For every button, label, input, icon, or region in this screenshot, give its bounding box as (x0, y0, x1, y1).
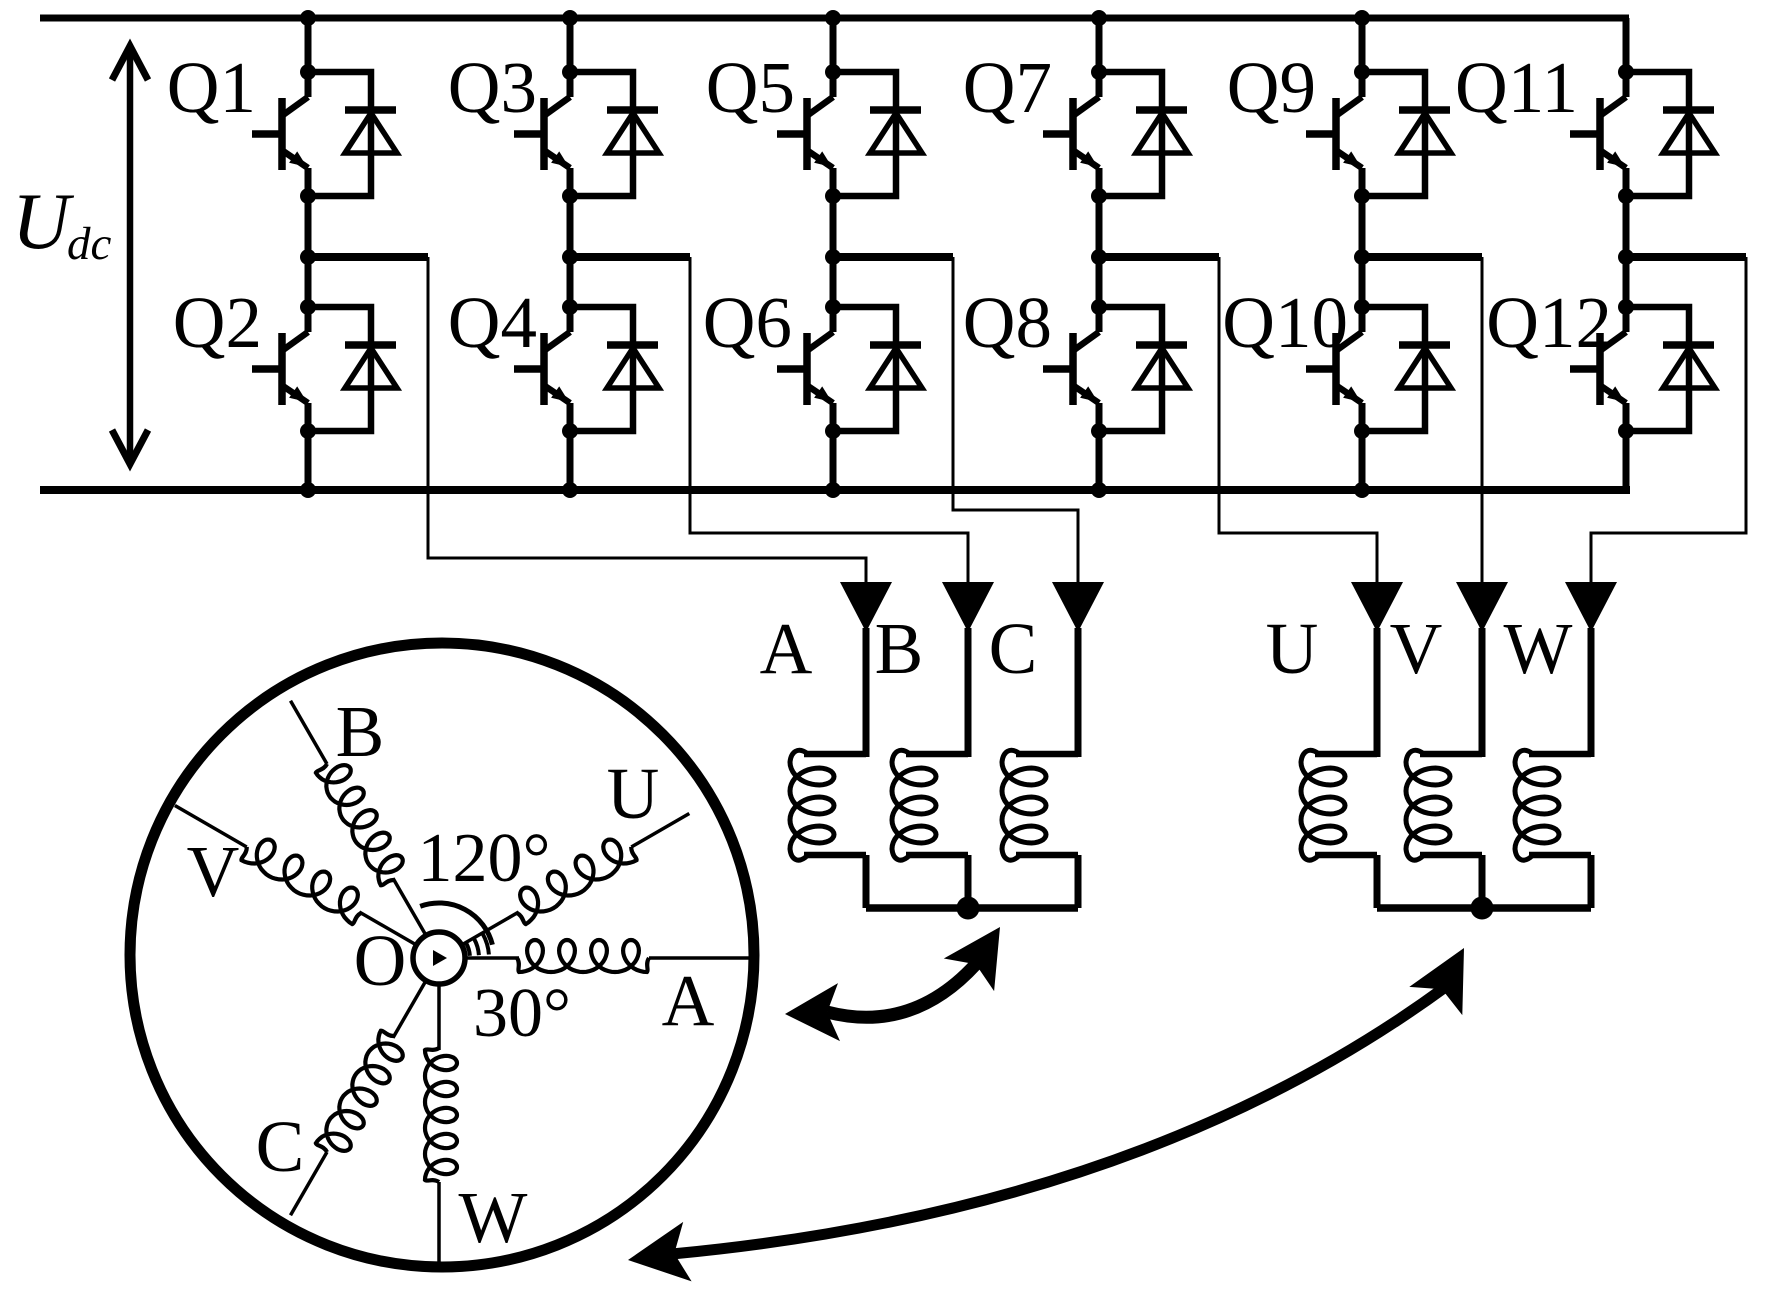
node: Q6 collector junction (825, 299, 841, 315)
node: Q10 emitter junction (1354, 423, 1370, 439)
arrow into phase B terminal (942, 582, 994, 632)
wire: phase C lead into winding (1075, 628, 1082, 757)
node: Q7 emitter junction (1091, 188, 1107, 204)
freewheel diode of Q8 (1099, 307, 1188, 431)
arrow into phase V terminal (1456, 582, 1508, 632)
node: Q9 emitter junction (1354, 188, 1370, 204)
wire: output V routing (1481, 257, 1484, 584)
wire: leg 3 midpoint output stub (833, 253, 953, 261)
svg-text:B: B (336, 691, 385, 772)
node: Q8 collector junction (1091, 299, 1107, 315)
freewheel diode of Q3 (570, 72, 659, 196)
node: Q2 collector junction (300, 299, 316, 315)
wire: inverter leg 4 vertical (1096, 18, 1103, 490)
winding V spoke (175, 806, 417, 946)
wire: leg 5 midpoint output stub (1362, 253, 1482, 261)
wire: V coil bottom to star point bus (1479, 855, 1486, 908)
winding A spoke (464, 940, 750, 972)
Udc dimension arrow (112, 46, 148, 464)
node: Q4 emitter junction (562, 423, 578, 439)
freewheel diode of Q6 (833, 307, 922, 431)
svg-text:O: O (354, 920, 407, 1001)
node: Q3 collector junction (562, 64, 578, 80)
wire: leg 6 midpoint output stub (1626, 253, 1746, 261)
svg-text:30°: 30° (473, 975, 571, 1052)
wire: C coil bottom to star point bus (1075, 855, 1082, 908)
svg-text:V: V (187, 831, 240, 912)
node: Q4 collector junction (562, 299, 578, 315)
node: Q6 emitter junction (825, 423, 841, 439)
node: leg 4 midpoint (1091, 249, 1107, 265)
wire: output B routing (690, 257, 968, 584)
wire: A coil bottom to star point bus (863, 855, 870, 908)
wire: output W routing (1591, 257, 1746, 584)
winding coil LA (790, 750, 866, 860)
node: leg 4 bottom rail junction (1091, 482, 1107, 498)
double arrow: ABC group to stator (short) (827, 964, 976, 1017)
svg-text:C: C (989, 608, 1038, 689)
wire: phase B lead into winding (965, 628, 972, 757)
svg-text:A: A (760, 608, 813, 689)
motor stator circle (130, 643, 754, 1267)
node: Q11 collector junction (1618, 64, 1634, 80)
node: Q5 emitter junction (825, 188, 841, 204)
winding coil LB (892, 750, 968, 860)
node: Q3 emitter junction (562, 188, 578, 204)
transistor Q6 (IGBT) (777, 307, 833, 431)
svg-text:120°: 120° (418, 820, 551, 897)
node: leg 1 midpoint (300, 249, 316, 265)
svg-text:U: U (12, 178, 75, 266)
wire: output C routing (953, 257, 1078, 584)
node: leg 1 top rail junction (300, 10, 316, 26)
wire: negative DC rail (40, 486, 1630, 494)
wire: leg 4 midpoint output stub (1099, 253, 1219, 261)
winding U spoke (461, 814, 690, 946)
node: leg 5 midpoint (1354, 249, 1370, 265)
winding coil LU (1301, 750, 1377, 860)
svg-text:B: B (875, 608, 924, 689)
arc: 30 degree angle ticks (466, 934, 489, 956)
node: Q5 collector junction (825, 64, 841, 80)
node: leg 1 bottom rail junction (300, 482, 316, 498)
arc: 120 degree angle mark (420, 903, 492, 945)
winding coil LC (1002, 750, 1078, 860)
node: Q11 emitter junction (1618, 188, 1634, 204)
transistor Q7 (IGBT) (1043, 72, 1099, 196)
arrow into phase C terminal (1052, 582, 1104, 632)
node O center circle (413, 932, 465, 984)
winding B spoke (291, 701, 427, 937)
svg-text:Q6: Q6 (703, 282, 792, 363)
transistor Q2 (IGBT) (252, 307, 308, 431)
node: Q10 collector junction (1354, 299, 1370, 315)
wire: leg 2 midpoint output stub (570, 253, 690, 261)
freewheel diode of Q10 (1362, 307, 1451, 431)
freewheel diode of Q2 (308, 307, 397, 431)
svg-text:A: A (662, 960, 715, 1041)
node: Q1 collector junction (300, 64, 316, 80)
wire: output U routing (1219, 257, 1377, 584)
freewheel diode of Q12 (1626, 307, 1715, 431)
svg-text:Q8: Q8 (963, 282, 1052, 363)
wire: phase A lead into winding (863, 628, 870, 757)
arrow into phase A terminal (840, 582, 892, 632)
wire: U coil bottom to star point bus (1374, 855, 1381, 908)
freewheel diode of Q5 (833, 72, 922, 196)
wire: output A routing (428, 257, 866, 584)
node: leg 5 bottom rail junction (1354, 482, 1370, 498)
node: leg 3 top rail junction (825, 10, 841, 26)
winding coil LV (1406, 750, 1482, 860)
node: leg 3 midpoint (825, 249, 841, 265)
transistor Q10 (IGBT) (1306, 307, 1362, 431)
node: leg 5 top rail junction (1354, 10, 1370, 26)
node: UVW neutral point (1471, 897, 1494, 920)
winding coil LW (1515, 750, 1591, 860)
wire: W coil bottom to star point bus (1588, 855, 1595, 908)
svg-text:Q5: Q5 (706, 47, 795, 128)
wire: inverter leg 3 vertical (830, 18, 837, 490)
svg-text:U: U (607, 753, 660, 834)
node: leg 4 top rail junction (1091, 10, 1107, 26)
svg-text:Q11: Q11 (1455, 47, 1578, 128)
transistor Q5 (IGBT) (777, 72, 833, 196)
wire: leg 1 midpoint output stub (308, 253, 428, 261)
node: Q1 emitter junction (300, 188, 316, 204)
wire: star-point bus (ABC) (866, 904, 1078, 912)
node: Q9 collector junction (1354, 64, 1370, 80)
wire: inverter leg 2 vertical (567, 18, 574, 490)
svg-text:U: U (1266, 608, 1319, 689)
wire: inverter leg 5 vertical (1359, 18, 1366, 490)
node: leg 3 bottom rail junction (825, 482, 841, 498)
transistor Q9 (IGBT) (1306, 72, 1362, 196)
svg-text:Q12: Q12 (1486, 282, 1612, 363)
freewheel diode of Q4 (570, 307, 659, 431)
freewheel diode of Q9 (1362, 72, 1451, 196)
svg-text:W: W (459, 1177, 528, 1258)
node: ABC neutral point (957, 897, 980, 920)
svg-text:Q10: Q10 (1222, 282, 1348, 363)
wire: inverter leg 1 vertical (305, 18, 312, 490)
svg-text:Q7: Q7 (963, 47, 1052, 128)
double arrow: UVW group to stator (long) (672, 988, 1444, 1254)
freewheel diode of Q7 (1099, 72, 1188, 196)
svg-text:Q1: Q1 (167, 47, 256, 128)
node: Q12 collector junction (1618, 299, 1634, 315)
node: leg 2 bottom rail junction (562, 482, 578, 498)
node: leg 6 midpoint (1618, 249, 1634, 265)
node: Q2 emitter junction (300, 423, 316, 439)
wire: inverter leg 6 vertical (1623, 18, 1630, 490)
arrow into phase U terminal (1351, 582, 1403, 632)
svg-text:Q3: Q3 (448, 47, 537, 128)
transistor Q11 (IGBT) (1570, 72, 1626, 196)
node: Q8 emitter junction (1091, 423, 1107, 439)
wire: phase V lead into winding (1479, 628, 1486, 757)
transistor Q1 (IGBT) (252, 72, 308, 196)
transistor Q3 (IGBT) (514, 72, 570, 196)
freewheel diode of Q1 (308, 72, 397, 196)
svg-text:dc: dc (67, 218, 112, 270)
transistor Q12 (IGBT) (1570, 307, 1626, 431)
svg-text:W: W (1504, 608, 1573, 689)
svg-text:Q4: Q4 (448, 282, 537, 363)
winding W spoke (425, 983, 457, 1266)
transistor Q4 (IGBT) (514, 307, 570, 431)
node: Q7 collector junction (1091, 64, 1107, 80)
svg-text:Q2: Q2 (173, 282, 262, 363)
freewheel diode of Q11 (1626, 72, 1715, 196)
wire: star-point bus (UVW) (1377, 904, 1591, 912)
node: Q12 emitter junction (1618, 423, 1634, 439)
node: leg 2 top rail junction (562, 10, 578, 26)
winding C spoke (291, 980, 427, 1215)
arrow into phase W terminal (1565, 582, 1617, 632)
wire: phase W lead into winding (1588, 628, 1595, 757)
transistor Q8 (IGBT) (1043, 307, 1099, 431)
wire: phase U lead into winding (1374, 628, 1381, 757)
svg-text:V: V (1390, 608, 1443, 689)
svg-text:C: C (256, 1106, 305, 1187)
svg-text:Q9: Q9 (1227, 47, 1316, 128)
node: leg 2 midpoint (562, 249, 578, 265)
wire: positive DC rail (40, 15, 1629, 22)
wire: B coil bottom to star point bus (965, 855, 972, 908)
arrow at center along A axis (433, 950, 447, 966)
